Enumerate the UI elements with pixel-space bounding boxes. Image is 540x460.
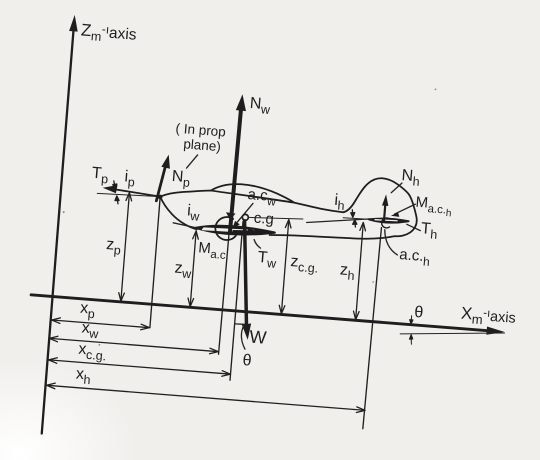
- svg-text:θ: θ: [414, 304, 424, 322]
- tail chord extension: [307, 214, 370, 228]
- projection line nose station: [150, 198, 160, 328]
- propeller thrust line T_p: [102, 184, 160, 197]
- N_h force arrow: [381, 194, 390, 222]
- wing airfoil: [196, 223, 275, 237]
- leader M_a.c.h with arrow: [391, 202, 416, 218]
- z_c.g. dimension: [279, 219, 292, 314]
- scan speckles: [52, 60, 436, 370]
- x_p dimension: [51, 317, 149, 330]
- canopy: [210, 182, 295, 203]
- N_w force arrow: [226, 94, 247, 232]
- svg-text:θ: θ: [242, 352, 252, 370]
- weight W arrow: [235, 221, 259, 340]
- leader prop plane note: [187, 154, 198, 169]
- z_h dimension: [353, 222, 366, 320]
- tail airfoil: [369, 217, 409, 224]
- fuselage top line: [160, 187, 344, 213]
- x_w dimension: [49, 336, 218, 355]
- angle i_h marks: [350, 210, 358, 227]
- moment arc M_a.c.: [215, 212, 238, 241]
- svg-text:plane): plane): [183, 136, 222, 154]
- leader T_h: [406, 224, 420, 230]
- horizon reference line at axis tip: [400, 325, 504, 342]
- leader N_h: [391, 182, 402, 193]
- fin and rear fuselage: [270, 170, 420, 247]
- nose reference line: [97, 192, 160, 199]
- leader T_w: [253, 240, 261, 249]
- X-axis: [31, 291, 505, 336]
- z_p dimension: [118, 192, 132, 301]
- theta arc at W: [233, 324, 247, 350]
- Z-axis: [37, 14, 79, 433]
- angle theta at X-axis tip: [408, 316, 415, 345]
- projection line c.g. station: [230, 222, 243, 381]
- N_p force arrow: [156, 154, 171, 202]
- svg-text:c.g: c.g: [253, 210, 274, 229]
- tail reference line: [343, 217, 379, 221]
- x_h dimension: [46, 382, 365, 413]
- fuselage bottom front: [158, 197, 199, 230]
- svg-text:W: W: [249, 327, 268, 348]
- leader a.c.w: [232, 202, 253, 230]
- c.g. reference line: [249, 215, 303, 222]
- projection line wing a.c. station: [219, 234, 229, 355]
- angle i_p marks: [111, 181, 120, 204]
- nose junction: [158, 194, 163, 199]
- leader a.c.h: [383, 230, 399, 255]
- z_w dimension: [187, 231, 199, 307]
- x_c.g. dimension: [48, 357, 230, 377]
- wing chord extension: [173, 223, 198, 228]
- thrust T_w arrow: [234, 227, 260, 235]
- c.g. circle: [242, 214, 248, 220]
- a.c.h arc: [381, 218, 390, 229]
- projection line tail station: [363, 227, 382, 429]
